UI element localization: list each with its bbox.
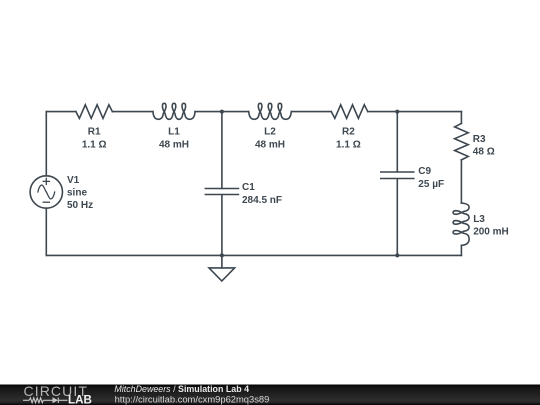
capacitor C1 plates [205,188,238,190]
wire right rail top (corner to R3) [460,112,462,124]
svg-text:R3: R3 [473,134,486,145]
svg-text:sine: sine [67,187,87,198]
resistor R2 [331,105,368,119]
svg-text:L3: L3 [473,214,485,225]
inductor L3 [453,203,469,245]
V1 sine wave [38,185,55,199]
wire R1 to L1 [112,111,152,113]
wire L3 to bottom-right corner [460,245,462,255]
svg-text:L1: L1 [168,126,180,137]
wire C1 branch upper [221,112,223,189]
node: top rail / C9 branch [395,110,399,114]
wire C1 branch lower [221,195,223,256]
resistor R1 [76,105,113,119]
voltage source V1 circle [30,176,62,208]
svg-text:284.5 nF: 284.5 nF [242,195,282,206]
inductor L2 [249,103,292,119]
svg-text:L2: L2 [264,126,276,137]
wire L1 to L2 (through node at C1 branch) [195,111,249,113]
wire left rail bottom (V1 - terminal to corner) [45,208,47,255]
wire C9 branch upper [396,112,398,172]
svg-text:25 µF: 25 µF [418,179,444,190]
svg-text:48 mH: 48 mH [255,139,285,150]
svg-text:V1: V1 [67,175,80,186]
resistor R3 [455,123,469,159]
wire left rail top (corner to V1 + terminal) [45,112,47,176]
ground symbol [209,268,235,281]
inductor L1 [153,103,195,119]
svg-text:LAB: LAB [68,393,92,405]
wire R2 to top-right corner (through node at C9 branch) [368,111,462,113]
wire L2 to R2 [291,111,331,113]
svg-text:C1: C1 [242,182,255,193]
wire C9 branch lower [396,179,398,256]
node: bottom rail / C9 branch [395,253,399,257]
V1 plus sign [43,178,49,184]
svg-text:R2: R2 [342,126,355,137]
V1 minus sign [43,201,49,203]
svg-text:R1: R1 [88,126,101,137]
svg-text:200 mH: 200 mH [473,227,509,238]
wire R3 to L3 [460,160,462,203]
CircuitLab logo wire with resistor and diode [23,398,68,403]
svg-text:1.1 Ω: 1.1 Ω [336,139,361,150]
capacitor C9 plates [381,171,414,173]
svg-text:http://circuitlab.com/cxm9p62m: http://circuitlab.com/cxm9p62mq3s89 [115,393,270,404]
wire top rail: left corner to R1 [46,111,76,113]
svg-text:50 Hz: 50 Hz [67,200,93,211]
node: bottom rail / C1 branch / ground [220,253,224,257]
svg-text:48 mH: 48 mH [159,139,189,150]
svg-text:C9: C9 [418,166,431,177]
svg-text:1.1 Ω: 1.1 Ω [82,139,107,150]
wire bottom rail [46,254,461,256]
svg-text:48 Ω: 48 Ω [473,147,495,158]
ground stub wire [221,255,223,268]
node: top rail / C1 branch [220,110,224,114]
